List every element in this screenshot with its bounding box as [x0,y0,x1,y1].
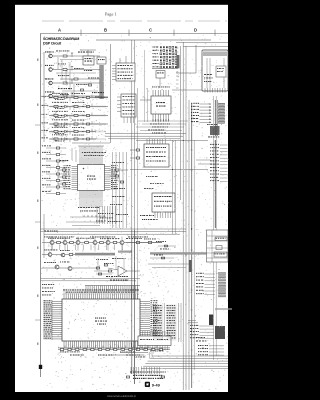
stub row 5 [69,132,71,135]
label Q103 [45,78,47,79]
transistor Q104 [49,94,53,98]
dark blob left of M401 [177,55,180,68]
bottom chain emphasis [58,347,170,348]
labels above row 3 [52,110,53,113]
labels below row 2 [55,107,56,110]
wire Q101 to bus [67,55,100,57]
cluster bottom left A [92,92,93,93]
bottom row labels [98,355,99,356]
grid tick 4 [214,30,216,37]
tick marks on buses [191,149,193,151]
dark box X1 [215,326,225,339]
wire segments right mid [196,159,210,161]
speckle noise [159,43,162,46]
bus vertical mid4 [136,88,138,330]
wire vertical left rail [43,52,45,98]
IC401 bottom pins [63,341,65,347]
pads V2 [219,273,226,275]
labels below pads [207,123,209,126]
net label N46 [191,121,193,122]
left fuzz extra [71,117,72,120]
grid tick 1 [80,30,82,37]
IC401 top pins [63,294,65,300]
wire net N40 [200,103,210,105]
IC201 bottom stems [79,198,81,207]
block V1 inner box 1 [215,237,227,241]
bus fan verticals [151,352,153,356]
svg-text:DSP Circuit: DSP Circuit [43,42,62,46]
capacitor C122 [86,115,89,117]
label Q101 [45,51,46,52]
IC301 bottom dots [153,120,154,121]
IC103 block [116,63,135,81]
wire top right gray [183,46,228,48]
IC301 top pin labels [152,86,153,89]
scan border left [0,0,15,400]
wire net N46 [200,121,210,123]
bottom cluster row1 [133,375,135,376]
net column emphasis 1 [153,305,163,341]
wires mid horizontals [105,133,186,135]
grid tick 3 [173,30,175,37]
IC401 right pins [140,301,150,303]
parts right of IC201 [115,169,119,171]
row labels mid [44,230,46,233]
pin list right rows [210,143,212,146]
connector CN201 underline [152,68,178,70]
transistor Q36 [48,253,52,257]
row marker 2 [37,104,39,106]
wires right of IC201 [110,169,116,171]
bus gray vertical [100,65,104,99]
wire net N41 [200,106,210,108]
speckle extra [115,105,118,108]
capacitor C101 [71,53,73,57]
IC104 block [121,94,136,117]
wire net N42 [200,109,210,111]
row y242 stems [51,244,53,250]
row marker 4 [37,200,39,202]
frame border left [40,34,42,377]
box X3 body [138,336,171,346]
scan border right [228,0,243,400]
module M401 inner vertical 3 [223,58,225,88]
IC301 top pins [152,90,154,96]
net label N43 [191,112,192,113]
page ref icon [145,382,150,387]
wire horizontal y169 [130,169,208,171]
IC104 left pins [117,96,121,98]
dark cluster below pads [210,126,220,135]
module M401 left ticks [176,47,179,49]
verticals mid-right [172,140,174,234]
resistor R120 [54,96,58,98]
component row main wire [42,242,162,244]
IC401 left rail [51,300,53,340]
diode D123 [65,123,68,126]
component row labels [44,236,45,239]
net column emphasis 2 [167,305,177,341]
transistor Q31 [63,241,67,245]
transistor Q35 [120,241,124,245]
junctions mid right [172,169,173,170]
misc parts mid [58,75,59,76]
parts left of IC201 [60,160,61,161]
labels above row y242 [48,237,49,240]
bottom cluster parts [126,376,129,378]
stub row 4 [69,124,71,127]
wires right mid y264 [148,263,190,265]
top comb emphasis [63,289,139,295]
labels above row 1 [52,92,54,95]
resistor R104 [63,95,67,97]
IC201 label [87,176,89,177]
resistor R121 [54,105,58,107]
capacitor C103 [71,80,73,84]
IC301 label [156,102,157,103]
row marker 6 [37,295,39,297]
capacitor C121 [86,106,89,108]
labels right of IC201 [112,161,113,164]
net rows V2 [196,272,197,275]
bus vertical mid1 [110,44,112,143]
IC401 body [62,299,140,341]
transistor Q32 [76,241,80,245]
net column bus 3 [180,303,182,342]
capacitor C125 [86,138,89,140]
bottom cluster row3 [130,372,132,373]
row stems down [51,245,53,251]
parts right of rows y242 [136,242,139,244]
svg-text:A: A [58,28,61,33]
IC201 top pins [79,158,81,165]
parts mid right y240s [156,240,157,243]
transistor Q34 [106,241,110,245]
IC103 left pins [112,65,116,67]
labels below row 4 [55,125,57,128]
parts right band y258-276 [95,258,98,261]
net column 2 [167,304,169,307]
dense fuzz mid rows [114,238,117,241]
net row label L4 [42,121,44,124]
bus fan wire 2 [150,358,228,360]
dark blob right mid [209,315,213,326]
capacitor C104 [71,93,73,97]
bottom chain extra parts [64,346,66,349]
bus vertical right8 [215,96,217,356]
capacitor C124 [86,131,89,133]
labels left of comb [42,283,43,286]
resistor R122 [54,114,58,116]
wires left of IC201 [58,169,62,171]
resistor R33 [100,242,104,244]
svg-text:D: D [194,28,197,33]
gray bar 2 [150,252,212,254]
left rail rows [43,96,45,142]
IC303 bottom pins [154,212,156,218]
transistor Q30 [50,241,54,245]
bus vertical right3 [185,46,187,390]
wire U101 top [87,50,89,56]
labels below row 1 [55,98,56,101]
row band emphasis [50,97,106,99]
QFP bottom cluster labels [98,212,99,215]
module M401 text [204,73,206,76]
IC U101 box [83,56,94,65]
net column bus 2 [178,303,180,342]
label Q104 [45,91,46,92]
IC303 body [152,193,175,212]
IC302 top pins [146,139,148,144]
IC401 top pin labels [63,289,65,292]
wire Q101 collector [53,55,62,57]
net label N45 [191,118,193,119]
net row label L1 [42,95,43,98]
vertical wires right of IC201 [112,152,114,228]
pads fill S [219,104,224,105]
svg-text:B: B [104,28,107,33]
bus fan wire 4 [145,363,228,365]
wire row 2 [49,106,108,108]
wire top long [96,39,211,41]
wires row j right [80,267,98,269]
IC301 bottom pins [152,114,154,122]
resistor R133 [74,123,78,125]
labels right of IC201 extra [112,195,114,198]
resistor R34 [113,242,117,244]
scan border top [0,0,243,5]
interconnect verticals top-left [57,57,59,69]
resistor R32 [85,242,89,244]
svg-text:SCHEMATIC DIAGRAM: SCHEMATIC DIAGRAM [43,37,79,41]
wires left of blob [188,320,196,322]
labels above row 2 [52,101,53,104]
stub row 2 [69,107,71,110]
IC401 left pin labels [44,299,46,302]
grid header line [40,33,228,35]
wire M401 left vertical [195,45,197,73]
dark blob on right bus [189,260,192,272]
svg-text:9-49: 9-49 [152,383,161,388]
resistor R101 [63,55,67,57]
capacitor C120 [86,97,89,99]
IC302 body [144,144,169,167]
box below CN201 [156,71,165,79]
module M401 inner box [216,66,226,77]
stub row 3 [69,116,71,119]
IC301 body [151,96,171,114]
wires right half horizontals [138,120,188,122]
net label N44 [191,115,192,116]
IC401 label [95,318,96,319]
resistor R110 [74,78,78,80]
connector CN201 grid [153,47,154,48]
IC201 top pin stems [79,146,81,158]
block V1 frame [207,230,229,262]
row tick 2 [35,221,41,223]
components near IC302 [136,149,140,151]
wire Q104 collector [53,95,62,97]
bus horizontal 3 [44,233,180,235]
IC201 left pin labels [64,164,66,167]
labels below IC201 [78,206,79,209]
resistor R124 [54,130,58,132]
grid tick 2 [128,30,130,37]
wire bottom center [120,352,148,354]
gray line right [215,308,232,310]
parts between blocks right y240-258 [154,254,155,257]
dark bus pair right [214,100,216,136]
label above U101 [78,52,80,53]
dark tick column right of pin list [214,140,216,228]
pads fill V2 [219,273,225,274]
IC302 text [146,147,147,148]
bottom row stems [63,347,65,350]
block V1 inner box 3 [214,252,227,257]
diode D125 [65,138,68,141]
wire Q103 collector [53,82,62,84]
IC401 right pin labels [151,299,153,302]
module M401 outline [202,50,228,91]
second row wire [42,254,80,256]
IC103 top wires [119,58,121,63]
bus vertical right4 [188,100,190,390]
net row label L5 [42,129,43,132]
wire net N44 [200,115,210,117]
module M401 bottom pins [204,88,206,93]
wires QFP to rows [71,148,73,160]
bus vertical right5 gray [191,104,193,388]
IC303 text [154,196,156,197]
speckle dark flecks [71,112,72,115]
IC U102 box [97,57,106,64]
header rule [42,20,227,22]
transistor Q102 [49,68,53,72]
svg-text:www.serwis-elektroniki.pl: www.serwis-elektroniki.pl [107,394,136,398]
row tick 3 [35,319,41,321]
dense blob y274-283 [106,276,108,277]
scan border bottom [0,392,243,400]
wire Q103 to bus [67,82,100,84]
labels between IC302 IC303 [146,175,147,178]
block V1 inner box 2 [216,246,222,250]
dense fuzz top-left [83,130,84,133]
diode D124 [65,130,68,133]
bus vertical mid3 [134,40,136,384]
bottom chain second row [60,351,62,354]
dense fuzz QFP area [103,209,104,212]
wire Q102 to bus [67,69,100,71]
stub row 1 [69,98,71,101]
resistor R132 [74,114,78,116]
resistor R130 [74,96,78,98]
IC201 bottom pins [79,191,81,199]
block V1 left vertical [211,230,213,262]
labels below row 6 [55,140,57,143]
wires above IC201 [78,145,104,147]
resistor R102 [63,69,67,71]
net column 1 [153,304,155,307]
capacitor C115 [88,84,91,86]
IC201 index dot [83,168,85,170]
second row labels [44,249,45,252]
transistor Q101 [49,54,53,58]
bottom band fuzz [80,356,81,359]
row marker 1 [37,59,39,61]
box X3 top pins [139,331,141,336]
net row label L6 [42,136,44,139]
pad column right [219,103,225,105]
bus fan wire 6 [141,368,228,370]
bus edge line [99,65,101,99]
svg-text:C: C [149,28,152,33]
wires near IC302 [130,149,136,151]
transistor Q33 [93,241,97,245]
labels right bottom [196,336,198,339]
labels top-left extra [56,50,58,53]
bottom connector stems [139,346,141,351]
net label N42 [191,109,192,110]
resistor R103 [63,82,67,84]
left lower rail [43,214,45,258]
wire top-left extra [60,59,84,61]
transistor Q38 [55,265,59,269]
net column bus 1 [163,303,165,340]
row marker 5 [37,247,39,249]
diode D122 [65,114,68,117]
wire M401 left [176,72,196,74]
module M401 inner vertical 2 [209,58,211,88]
bottom component row [58,349,170,351]
wire row 3 [49,115,108,117]
block V1 rows [207,235,228,237]
wire below CN201 [159,78,161,88]
IC401 top label band 2 [66,291,68,294]
resistor R125 [54,138,58,140]
IC301 module outline [147,88,149,122]
wire net N45 [200,118,210,120]
parts right row j [96,267,100,269]
net label N41 [191,106,192,107]
IC401 left pins [52,301,62,303]
wire top right [176,42,228,44]
bus vertical mid2 [131,40,133,374]
diode D121 [65,105,68,108]
resistor R30 [57,242,61,244]
svg-text:Page 1: Page 1 [105,11,117,16]
bus fan wire 1 [152,355,228,357]
comb bus dense [85,285,140,287]
resistor R131 [74,105,78,107]
wires row j2 [41,278,141,280]
bus vertical right2 [182,42,184,390]
capacitor C116 [80,89,83,91]
wire net N43 [200,112,210,114]
left pin labels emphasis [44,300,53,340]
bottom center labels extra [132,347,133,350]
bottom cluster row2 [133,378,134,379]
wire row j [42,267,80,269]
labels above row 5 [52,126,53,129]
IC201 left pins [72,166,78,168]
gray bar 1 [75,253,115,256]
capacitor C102 [71,67,73,71]
QFP bottom stem cluster right [96,206,98,224]
stub verticals y258-280 [97,258,99,268]
frame end marker [39,365,42,369]
net row label L2 [42,104,44,107]
wire row 1 [49,97,108,99]
